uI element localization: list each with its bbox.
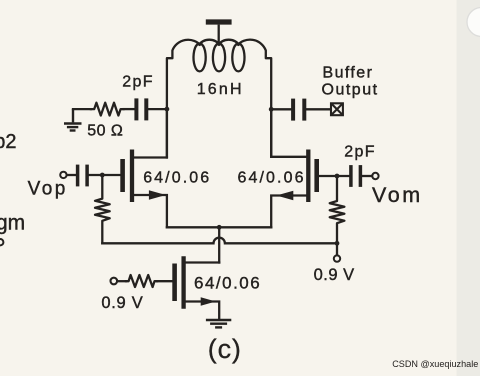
right page gutter strip	[457, 0, 480, 376]
svg-text:64/0.06: 64/0.06	[143, 169, 211, 186]
junction node bias rail	[335, 241, 340, 246]
capacitor C1 2pF (input coupling)	[136, 98, 146, 120]
arrow M3 source	[201, 297, 216, 306]
svg-text:50 Ω: 50 Ω	[87, 122, 123, 139]
svg-text:gm: gm	[0, 211, 25, 234]
arrow M1 source	[149, 190, 166, 200]
svg-text:0.9 V: 0.9 V	[314, 266, 355, 284]
wire left tank leg lower	[166, 109, 168, 157]
ground (tail source)	[206, 320, 231, 327]
capacitor C2 (buffer output coupling)	[293, 99, 304, 121]
inductor L1 16nH with legs	[167, 40, 271, 158]
inductor petal loops	[194, 45, 206, 72]
wire R4 to M3 gate	[157, 280, 172, 282]
input terminal Vop	[60, 172, 66, 178]
wire 0.9V stub	[336, 243, 338, 255]
wire M2 drain	[271, 156, 306, 158]
supply rail bar VDD	[206, 19, 232, 24]
transistor M2 channel bar	[306, 150, 310, 203]
terminal 0.9V (tail gate)	[111, 278, 118, 285]
svg-text:b2: b2	[0, 131, 16, 153]
output terminal Vom	[372, 173, 378, 179]
resistor R2 (left gate bias)	[95, 175, 110, 243]
svg-text:0.9 V: 0.9 V	[101, 294, 143, 312]
capacitor C4 (Vom gate coupling)	[351, 165, 361, 187]
svg-text:64/0.06: 64/0.06	[238, 169, 306, 186]
terminal 0.9V (tank bias)	[334, 255, 340, 261]
wire bias rail with crossover hop	[102, 238, 337, 244]
arrow M2 source	[276, 191, 293, 201]
wire Vop to C3	[67, 174, 76, 176]
transistor M1 channel bar	[130, 150, 134, 203]
floating round button (partial, right edge)	[467, 8, 480, 37]
resistor R1 50 ohm	[91, 103, 124, 116]
wire M2 source	[271, 196, 306, 228]
wire terminal to R4	[118, 280, 126, 282]
terminal fragment left edge	[0, 239, 3, 245]
svg-text:Buffer: Buffer	[323, 64, 374, 81]
wire resistor to C1	[124, 108, 135, 110]
wire C3 to M1 gate	[89, 174, 120, 176]
svg-text:Output: Output	[322, 82, 379, 99]
wire ground to resistor	[73, 108, 91, 110]
junction node right tank	[269, 107, 274, 112]
wire M3 drain	[186, 261, 220, 263]
wire M1 source	[134, 195, 167, 227]
junction node common source	[217, 225, 222, 230]
transistor M2 gate bar	[314, 159, 319, 192]
svg-text:Vom: Vom	[372, 183, 423, 207]
transistor M3 gate bar	[172, 264, 177, 302]
wire tail drain riser	[218, 227, 220, 262]
transistor M1 gate bar	[120, 159, 125, 192]
junction node M1 gate	[100, 173, 105, 178]
svg-text:64/0.06: 64/0.06	[194, 274, 261, 293]
capacitor C3 (Vop gate coupling)	[78, 165, 88, 187]
wire C4 to Vom terminal	[362, 175, 372, 177]
wire C2 to output pad	[306, 108, 330, 110]
svg-text:2pF: 2pF	[344, 144, 375, 161]
svg-text:2pF: 2pF	[122, 73, 153, 90]
svg-text:(c): (c)	[208, 334, 242, 364]
junction node M2 gate	[335, 174, 340, 179]
wire common-source rail	[167, 226, 271, 228]
resistor R3 (right gate bias)	[330, 176, 345, 243]
wire M3 source	[186, 302, 220, 319]
ground (50 ohm input branch)	[64, 109, 82, 130]
wire C1 to left tank node	[148, 108, 167, 110]
wire right tank leg lower	[270, 109, 272, 157]
svg-text:CSDN @xueqiuzhale: CSDN @xueqiuzhale	[392, 359, 478, 369]
resistor R4 (tail gate)	[126, 275, 157, 287]
wire M2 gate to C4	[319, 175, 349, 177]
transistor M3 channel bar	[181, 256, 185, 308]
output pad symbol (crossed box)	[331, 103, 343, 115]
wire M1 drain	[134, 156, 167, 158]
svg-text:16nH: 16nH	[197, 81, 244, 98]
junction node left tank	[165, 107, 170, 112]
wire supply stem	[218, 25, 220, 45]
svg-text:Vop: Vop	[28, 178, 68, 199]
wire right node to C2	[271, 108, 291, 110]
